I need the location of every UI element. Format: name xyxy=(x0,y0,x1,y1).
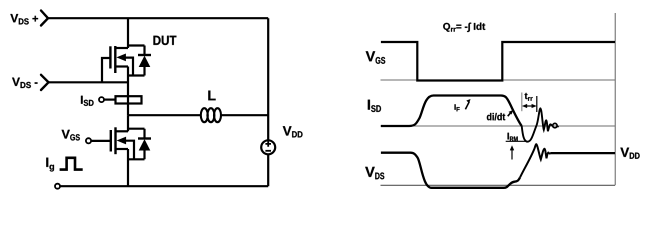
probe ISD terminal xyxy=(99,97,104,102)
transistor DUT : channel bar xyxy=(114,46,116,73)
wire top rail xyxy=(48,17,268,19)
label L xyxy=(208,91,215,101)
wire bottom rail xyxy=(60,185,268,187)
label DUT xyxy=(153,36,176,45)
wire right rail lower xyxy=(267,155,269,186)
waveform VGS xyxy=(381,42,615,81)
transistor Q2 : source stub xyxy=(116,148,129,150)
ISD ringing end loop xyxy=(553,123,557,127)
wire VDS- to DUT source node xyxy=(49,81,129,83)
label VDS- xyxy=(12,78,37,88)
gate pulse symbol xyxy=(60,158,83,170)
body diode of Q2 xyxy=(128,129,151,160)
transistor DUT : source stub xyxy=(115,65,128,67)
label VGS (waveform) xyxy=(366,51,386,63)
transistor Q2 (driver) : gate bar xyxy=(110,130,112,152)
waveform VDS xyxy=(381,153,520,188)
label trr xyxy=(525,93,533,101)
wire VGS probe to gate xyxy=(92,140,111,142)
annotation trr ticks and arrow xyxy=(521,93,523,112)
probe VDS+ xyxy=(41,11,48,26)
VDS settled VDD level xyxy=(550,152,615,154)
VDS turn-off rise and ringing xyxy=(520,144,550,177)
wire lower FET source to bottom rail xyxy=(127,149,129,186)
axis VDS baseline xyxy=(381,184,616,186)
transistor Q2 : channel bar xyxy=(114,127,116,154)
label Qrr equation xyxy=(443,23,485,32)
waveform ISD xyxy=(381,96,522,127)
label ISD xyxy=(81,96,94,106)
annotation IRM xyxy=(508,133,518,141)
label VGS (schematic) xyxy=(62,130,80,141)
inductor L xyxy=(201,108,221,122)
label VDS (waveform) xyxy=(365,167,384,179)
probe VGS terminal xyxy=(86,138,91,143)
axis VGS baseline xyxy=(381,79,616,81)
wire right rail upper xyxy=(267,18,269,140)
label VDD (schematic) xyxy=(283,126,303,137)
ISD recovery dip and ringing xyxy=(522,108,553,141)
annotation IF xyxy=(455,104,460,111)
label VDD (waveform level) xyxy=(620,148,639,159)
wire DUT gate tie to VDS- xyxy=(102,58,110,82)
transistor DUT : gate bar xyxy=(109,46,111,68)
transistor DUT : body stub with arrow xyxy=(116,54,133,76)
transistor DUT : drain stub xyxy=(115,47,128,49)
wire DUT drain drop xyxy=(127,18,129,48)
wire inductor branch left xyxy=(128,114,202,116)
wire lower FET drain drop xyxy=(127,115,129,131)
label ISD (waveform) xyxy=(368,100,381,112)
shunt resistor box xyxy=(116,96,142,103)
source VDD xyxy=(261,140,275,154)
transistor Q2 : drain stub xyxy=(116,130,129,132)
label Ig xyxy=(46,158,54,172)
transistor Q2 : body stub with arrow xyxy=(117,137,134,160)
body diode of DUT xyxy=(128,46,151,76)
wire inductor branch right xyxy=(221,114,269,116)
label VDS+ xyxy=(10,14,38,24)
wire ISD probe to shunt xyxy=(104,98,115,100)
wire center bus: DUT source to inductor node xyxy=(127,67,129,116)
annotation di/dt xyxy=(487,113,505,120)
probe VDS- xyxy=(41,75,49,90)
axis right vertical xyxy=(614,13,616,185)
terminal bottom-left xyxy=(55,184,60,189)
axis ISD baseline xyxy=(381,125,616,127)
